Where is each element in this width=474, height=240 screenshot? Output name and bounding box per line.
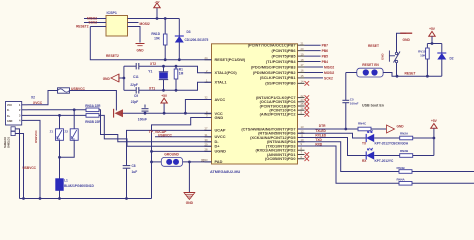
svg-text:(OC0B/INT0)PD0: (OC0B/INT0)PD0: [265, 156, 295, 161]
svg-text:+5V: +5V: [429, 27, 436, 31]
svg-text:1uF: 1uF: [132, 170, 138, 174]
svg-text:(PCINT6)PB6: (PCINT6)PB6: [272, 48, 297, 53]
svg-text:XTAL2(PC0): XTAL2(PC0): [215, 70, 238, 75]
svg-text:RESET2: RESET2: [106, 54, 119, 58]
svg-text:AVCC: AVCC: [215, 97, 226, 102]
svg-text:+5V: +5V: [161, 94, 168, 98]
svg-text:ICSP1: ICSP1: [107, 11, 117, 15]
svg-text:10K: 10K: [154, 37, 161, 41]
svg-text:(SCLK/PCINT1)PB1: (SCLK/PCINT1)PB1: [260, 75, 297, 80]
svg-text:C9: C9: [134, 94, 138, 98]
svg-text:R1: R1: [179, 67, 183, 71]
svg-text:USBVCC: USBVCC: [158, 134, 173, 138]
svg-text:USBVCC: USBVCC: [23, 166, 37, 170]
svg-text:GND: GND: [397, 124, 405, 128]
svg-text:RN3B 22R: RN3B 22R: [85, 120, 101, 124]
svg-text:22pF: 22pF: [130, 83, 137, 87]
svg-text:SCK2: SCK2: [88, 21, 97, 25]
svg-text:(PCINT5)PB5: (PCINT5)PB5: [272, 53, 297, 58]
svg-text:D3: D3: [187, 30, 191, 34]
svg-text:+5V: +5V: [154, 0, 159, 4]
svg-text:Y1: Y1: [148, 69, 152, 73]
svg-text:GND: GND: [136, 49, 144, 53]
svg-text:TXD: TXD: [315, 138, 322, 142]
svg-text:MISO2: MISO2: [324, 65, 334, 69]
svg-text:SHIELD1: SHIELD1: [7, 136, 11, 148]
svg-text:RN4B: RN4B: [397, 166, 406, 170]
svg-text:RXLED: RXLED: [315, 133, 327, 137]
svg-text:RN3A 22R: RN3A 22R: [85, 104, 101, 108]
svg-text:RESET: RESET: [405, 72, 416, 76]
svg-text:33: 33: [201, 158, 205, 162]
svg-text:X2: X2: [31, 96, 35, 100]
svg-text:PB6: PB6: [322, 49, 329, 53]
svg-text:RESET(PC1/DW): RESET(PC1/DW): [215, 57, 246, 62]
svg-text:RESET: RESET: [368, 44, 379, 48]
svg-text:CD1206-S01575: CD1206-S01575: [185, 38, 209, 42]
svg-text:RN1D: RN1D: [151, 32, 160, 36]
svg-text:RN4C: RN4C: [358, 121, 367, 125]
svg-text:C11: C11: [133, 75, 139, 79]
svg-text:PAD: PAD: [215, 159, 223, 164]
svg-text:MOSI2: MOSI2: [140, 22, 150, 26]
svg-text:GND: GND: [7, 120, 13, 123]
svg-text:GND: GND: [186, 201, 194, 205]
svg-text:RN2A: RN2A: [400, 131, 409, 135]
svg-text:D2: D2: [450, 57, 454, 61]
svg-text:+5V: +5V: [431, 119, 438, 123]
svg-text:UCAP: UCAP: [215, 128, 226, 133]
svg-text:L1: L1: [64, 179, 68, 183]
svg-text:ATMEGA8U2-MU: ATMEGA8U2-MU: [210, 170, 241, 174]
svg-text:(T1/PCINT4)PB4: (T1/PCINT4)PB4: [266, 59, 296, 64]
svg-text:GND: GND: [103, 77, 111, 81]
svg-text:USBVCC: USBVCC: [34, 129, 38, 143]
svg-text:GROUND: GROUND: [164, 153, 179, 157]
svg-text:RN4A: RN4A: [397, 178, 406, 182]
svg-text:PB7: PB7: [322, 44, 329, 48]
svg-text:GND: GND: [403, 38, 411, 42]
svg-text:UGND: UGND: [215, 149, 227, 154]
svg-text:GND: GND: [215, 115, 224, 120]
svg-text:(SS/PCINT0)PB0: (SS/PCINT0)PB0: [265, 81, 295, 86]
svg-text:TXLED: TXLED: [315, 129, 326, 133]
svg-text:PB4: PB4: [322, 60, 329, 64]
svg-text:RN2B: RN2B: [400, 149, 409, 153]
svg-text:Z2: Z2: [64, 129, 68, 133]
svg-text:100nF: 100nF: [350, 102, 359, 106]
svg-text:PB5: PB5: [322, 55, 329, 59]
svg-text:MOSI2: MOSI2: [324, 71, 334, 75]
svg-text:USB boot En: USB boot En: [362, 104, 384, 108]
svg-text:C8: C8: [132, 164, 136, 168]
svg-text:XTAL1: XTAL1: [215, 80, 228, 85]
svg-text:XVCC: XVCC: [33, 101, 43, 105]
svg-text:BLM21PG600SN1D: BLM21PG600SN1D: [64, 184, 94, 188]
svg-text:10K: 10K: [420, 53, 426, 57]
svg-text:GND: GND: [381, 54, 385, 60]
svg-text:(PDO/MISO/PCINT3)PB3: (PDO/MISO/PCINT3)PB3: [251, 64, 296, 69]
svg-text:XT2: XT2: [150, 62, 156, 66]
svg-text:KPT-2012YCBCK/GDA: KPT-2012YCBCK/GDA: [375, 142, 409, 146]
svg-text:100nF: 100nF: [138, 118, 147, 122]
svg-text:KPT-2012YC: KPT-2012YC: [375, 159, 394, 163]
svg-text:22pF: 22pF: [131, 100, 138, 104]
svg-text:Z1: Z1: [50, 129, 54, 133]
svg-text:XT1: XT1: [149, 86, 155, 90]
svg-text:(PDI/MOSI/PCINT2)PB2: (PDI/MOSI/PCINT2)PB2: [253, 70, 296, 75]
svg-text:SHIELD2: SHIELD2: [3, 136, 7, 148]
svg-text:RXD: RXD: [315, 142, 322, 146]
svg-text:RESET EN: RESET EN: [362, 63, 379, 67]
svg-text:D-: D-: [7, 109, 10, 112]
svg-text:RESET2: RESET2: [76, 25, 89, 29]
svg-text:VCC: VCC: [7, 104, 12, 107]
svg-text:1M: 1M: [179, 72, 184, 76]
svg-text:SCK2: SCK2: [324, 76, 333, 80]
svg-text:(AIN2/PCINT11)PC2: (AIN2/PCINT11)PC2: [260, 112, 297, 117]
svg-text:(PCINT7/OC0A/OC1C)PB7: (PCINT7/OC0A/OC1C)PB7: [248, 43, 296, 48]
svg-text:DTR: DTR: [319, 124, 326, 128]
